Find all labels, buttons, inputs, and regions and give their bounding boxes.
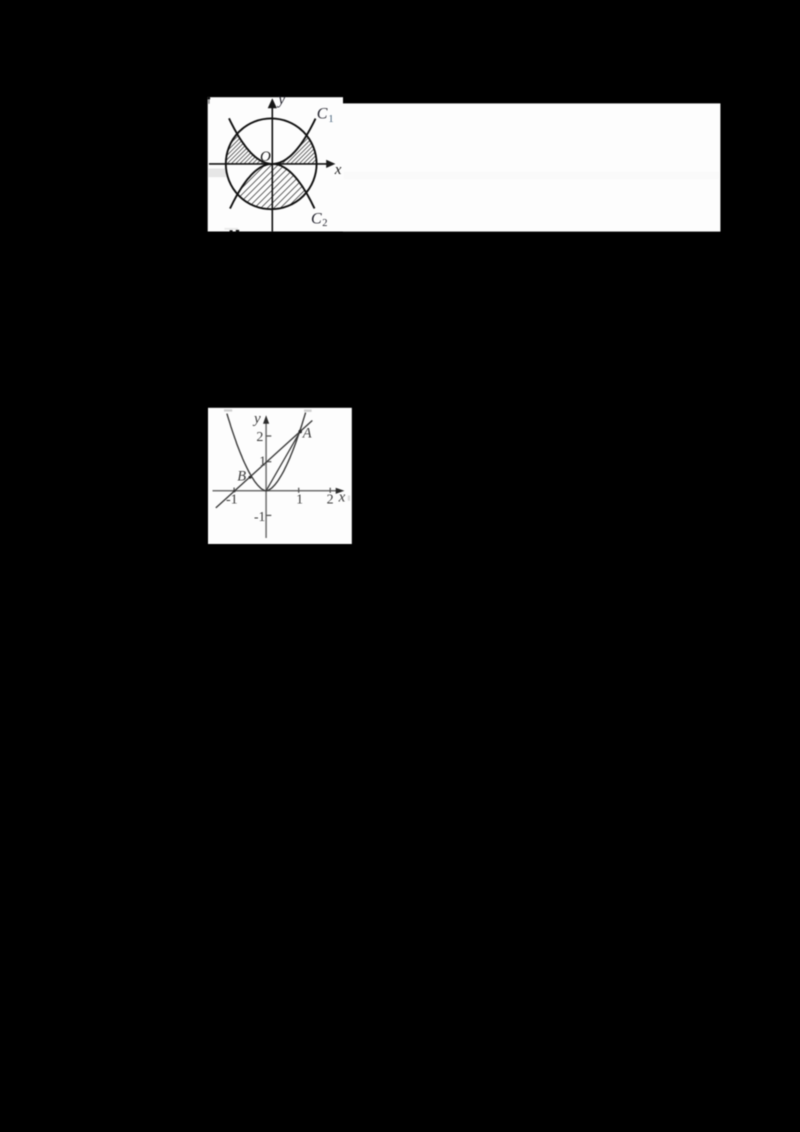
faint smudge above bottom edge	[225, 228, 239, 230]
line y=x+1 through B and A	[216, 421, 312, 508]
curve C1 (upward parabola)	[229, 118, 316, 164]
y-axis	[271, 107, 273, 232]
ink blob at B	[249, 476, 252, 479]
circle	[226, 118, 317, 209]
panel 1 white paper box (left figure area)	[208, 97, 343, 231]
chord OA	[266, 431, 301, 491]
svg-text:C: C	[317, 106, 328, 123]
hatched region upper-right (between C1, circle and x-axis)	[272, 135, 316, 164]
cut-off glyph marks at panel bottom edge	[230, 230, 233, 232]
y tick -1	[266, 514, 271, 516]
faint cut curve smudge top-left	[224, 409, 232, 411]
svg-text:1: 1	[296, 492, 303, 507]
hatched region upper-left (between circle, x-axis and C1)	[226, 134, 272, 164]
x tick -1	[233, 488, 235, 493]
svg-text:1: 1	[328, 114, 333, 125]
y tick 1	[266, 461, 271, 463]
svg-text:y: y	[276, 91, 285, 108]
svg-text:x: x	[338, 490, 346, 506]
svg-text:2: 2	[327, 492, 334, 507]
faint gray tick at panel top-left	[208, 99, 209, 104]
faint cut curve smudge top-right	[304, 410, 312, 412]
svg-text:B: B	[237, 469, 246, 485]
x tick 2	[329, 488, 331, 493]
ink blob at (-1,0)	[233, 490, 236, 493]
faint scan band left	[209, 169, 227, 178]
svg-text:-1: -1	[254, 509, 265, 524]
x-axis arrowhead	[326, 160, 335, 168]
svg-text:y: y	[252, 411, 261, 427]
svg-text:C: C	[311, 211, 322, 228]
x-axis arrowhead	[336, 488, 345, 494]
hatched region lower (inside circle below C2)	[238, 164, 307, 209]
y-axis arrowhead	[263, 415, 269, 424]
y-axis	[265, 423, 267, 538]
svg-text:1: 1	[259, 453, 266, 468]
corner notch at panel top-left	[208, 97, 210, 99]
y-axis arrowhead	[268, 98, 277, 108]
svg-text:O: O	[260, 149, 271, 165]
x-axis	[209, 163, 327, 165]
x-axis	[213, 490, 338, 492]
panel 2 white paper box	[208, 408, 352, 544]
ink blob at A	[298, 430, 302, 434]
svg-text:2: 2	[322, 218, 327, 229]
svg-text:A: A	[302, 425, 312, 441]
y tick 2	[266, 435, 271, 437]
svg-text:x: x	[334, 162, 342, 178]
svg-text:2: 2	[256, 430, 263, 445]
parabola y=2x^2	[227, 413, 306, 491]
faint scan band right	[344, 172, 719, 180]
curve C2 (downward parabola)	[230, 164, 315, 209]
panel 1 white paper box (right blank area)	[343, 103, 720, 231]
x tick 1	[298, 488, 300, 493]
svg-text:-1: -1	[226, 493, 238, 508]
faint mark right of x label	[348, 496, 350, 501]
